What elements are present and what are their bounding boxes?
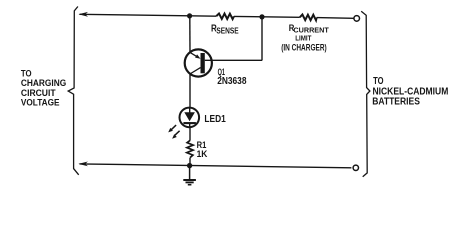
LED light arrow 1 bbox=[168, 125, 176, 132]
wire top rail segment A (left arrow to Rsense) bbox=[80, 14, 217, 16]
wire emitter riser (top rail to Q1) bbox=[189, 16, 191, 53]
wire base lead (Q1 to riser) bbox=[205, 59, 262, 61]
svg-text:LED1: LED1 bbox=[204, 114, 226, 125]
label R_SENSE bbox=[211, 23, 239, 35]
junction dot node B (base divider tap) bbox=[259, 14, 264, 19]
wire collector drop (Q1 to LED1) bbox=[189, 74, 191, 108]
terminal circle bottom right bbox=[353, 165, 358, 170]
transistor Q1 2N3638 bbox=[185, 49, 212, 76]
label TO CHARGING CIRCUIT VOLTAGE bbox=[21, 68, 66, 108]
label R_CURRENT LIMIT (IN CHARGER) bbox=[281, 23, 329, 52]
svg-text:1K: 1K bbox=[197, 149, 208, 160]
wire top rail segment C bbox=[317, 17, 354, 20]
junction dot node A (top of Q1 emitter) bbox=[187, 13, 192, 18]
arrow bottom-left pointing left bbox=[78, 162, 88, 167]
wire base riser (up to node B) bbox=[261, 17, 263, 60]
brace left bbox=[68, 7, 79, 175]
resistor R_SENSE zigzag bbox=[216, 14, 234, 20]
label TO NICKEL-CADMIUM BATTERIES bbox=[372, 76, 448, 107]
brace right bbox=[361, 11, 370, 176]
wire LED1 to R1 bbox=[189, 127, 191, 140]
LED light arrow 2 bbox=[172, 131, 180, 139]
svg-text:(IN CHARGER): (IN CHARGER) bbox=[281, 42, 327, 52]
label R1 1K bbox=[197, 140, 208, 160]
resistor R1 zigzag bbox=[187, 140, 193, 157]
wire top rail segment B bbox=[234, 15, 300, 18]
terminal circle top right bbox=[354, 16, 360, 22]
arrow top-left pointing left bbox=[79, 12, 89, 17]
svg-text:2N3638: 2N3638 bbox=[217, 76, 247, 87]
LED1 bbox=[180, 108, 200, 128]
svg-text:VOLTAGE: VOLTAGE bbox=[21, 97, 60, 108]
svg-text:SENSE: SENSE bbox=[216, 26, 239, 36]
resistor R_CURRENT-LIMIT zigzag bbox=[300, 15, 317, 21]
svg-text:LIMIT: LIMIT bbox=[295, 33, 312, 42]
wire bottom rail bbox=[80, 164, 352, 168]
label Q1 2N3638 bbox=[217, 67, 247, 87]
wire R1 to bottom rail bbox=[189, 158, 191, 166]
svg-text:BATTERIES: BATTERIES bbox=[372, 97, 420, 108]
junction dot node C (R1 / ground) bbox=[187, 163, 192, 168]
ground bbox=[183, 166, 196, 185]
